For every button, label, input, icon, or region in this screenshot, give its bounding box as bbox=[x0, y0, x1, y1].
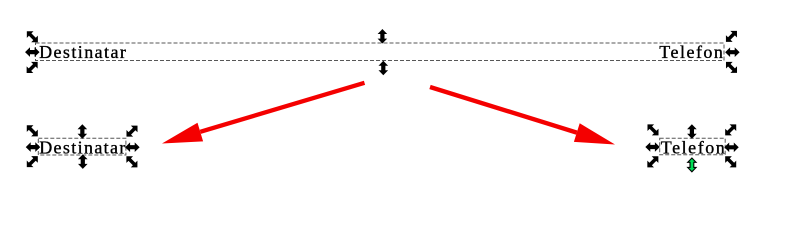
bottom-left handle W bbox=[26, 142, 41, 152]
top band dashed outline bbox=[36, 43, 725, 61]
svg-text:Telefon: Telefon bbox=[661, 137, 725, 157]
bottom-right object dashed outline bbox=[660, 138, 726, 155]
bottom-right handle W bbox=[645, 142, 660, 152]
top band handle N bbox=[378, 29, 388, 44]
red arrow left (to Destinatar object) bbox=[162, 81, 365, 144]
top band handle SW bbox=[23, 59, 41, 77]
svg-text:Destinatar: Destinatar bbox=[39, 137, 125, 157]
bottom-left handle E bbox=[125, 142, 140, 152]
bottom-left handle NE bbox=[123, 122, 141, 140]
top band handle NE bbox=[723, 28, 741, 46]
svg-text:Telefon: Telefon bbox=[659, 42, 723, 62]
bottom-right handle S (green) bbox=[688, 158, 696, 172]
bottom-left handle SW bbox=[23, 153, 41, 171]
bottom-left handle NW bbox=[23, 122, 41, 140]
top band handle SE bbox=[723, 59, 741, 77]
bottom-right handle NE bbox=[722, 121, 740, 139]
bottom-left handle N bbox=[78, 124, 88, 139]
bottom-right handle SW bbox=[644, 153, 662, 171]
top band handle S bbox=[379, 61, 389, 76]
bottom-left handle S bbox=[78, 154, 88, 169]
bottom-left object dashed outline bbox=[38, 138, 126, 155]
red arrow right (to Telefon object) bbox=[429, 85, 615, 145]
bottom-right handle N bbox=[687, 124, 697, 139]
bottom-right handle NW bbox=[644, 121, 662, 139]
bottom-right handle E bbox=[724, 143, 739, 153]
bottom-left handle SE bbox=[123, 153, 141, 171]
top band handle NW bbox=[24, 28, 42, 46]
top band handle W bbox=[25, 47, 40, 57]
top band handle E bbox=[725, 47, 740, 57]
bottom-right handle SE bbox=[722, 153, 740, 171]
